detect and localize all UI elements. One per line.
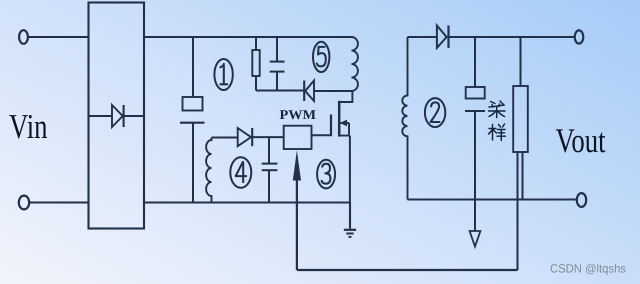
wire to ground bbox=[349, 203, 351, 229]
resistor R2 top lead bbox=[520, 37, 522, 86]
transistor Q1 source arrow bbox=[341, 122, 350, 124]
capacitor C1 top lead bbox=[192, 37, 194, 97]
resistor R1 body bbox=[252, 50, 259, 76]
bridge rectifier BR1 body bbox=[89, 3, 145, 229]
resistor R1 bottom lead bbox=[255, 76, 257, 91]
capacitor C1 box plate bbox=[183, 97, 203, 111]
wire top rail bbox=[144, 36, 352, 38]
wire D1 to drain node bbox=[314, 90, 352, 92]
node label 2 (circled) bbox=[425, 98, 445, 127]
wire secondary bottom rail bbox=[408, 199, 577, 201]
capacitor C2 bottom lead bbox=[474, 112, 476, 231]
diode D1 cathode bar bbox=[303, 81, 305, 102]
capacitor C4 bottom lead bbox=[268, 171, 270, 203]
transistor Q1 channel bar bbox=[338, 101, 341, 137]
transistor Q1 source stub bbox=[339, 123, 349, 136]
terminal input top bbox=[19, 30, 28, 44]
node label 1 (circled) bbox=[214, 59, 232, 90]
ground symbol bbox=[344, 229, 356, 231]
wire L4 to D4 bbox=[212, 137, 238, 139]
wire snubber bottom bbox=[256, 90, 303, 92]
terminal output bottom bbox=[577, 193, 586, 207]
svg-text:CSDN @ltqshs: CSDN @ltqshs bbox=[550, 262, 626, 276]
wire input bottom bbox=[29, 202, 88, 204]
terminal output top bbox=[575, 30, 584, 43]
transformer primary winding T1-5 bbox=[352, 37, 358, 91]
svg-text:PWM: PWM bbox=[280, 107, 317, 122]
diode D2 cathode bar bbox=[447, 26, 449, 48]
node label 3 (circled) bbox=[317, 160, 335, 189]
wire feedback bottom bbox=[297, 269, 518, 271]
capacitor C1 bottom plate bbox=[180, 122, 205, 124]
diode D4 triangle bbox=[238, 128, 251, 146]
transistor Q1 drain connection bbox=[340, 91, 353, 102]
wire secondary top left bbox=[408, 36, 437, 38]
wire feedback right vertical bbox=[517, 152, 519, 270]
capacitor C4 plates bbox=[262, 163, 278, 165]
capacitor C2 bottom plate bbox=[465, 110, 485, 112]
bridge rectifier internal diode bbox=[90, 115, 113, 117]
resistor R2 sampling body bbox=[513, 86, 528, 152]
node label 4 (circled) bbox=[230, 157, 251, 188]
capacitor C3 top lead bbox=[276, 37, 278, 61]
transistor Q1 gate bar bbox=[330, 115, 332, 136]
arrow to return (open) bbox=[470, 231, 481, 247]
svg-text:Vin: Vin bbox=[9, 107, 48, 146]
pwm controller U1 box bbox=[284, 126, 312, 149]
resistor R1 top lead bbox=[255, 37, 257, 50]
svg-text:Vout: Vout bbox=[556, 122, 606, 160]
diode D2 triangle bbox=[437, 26, 447, 48]
capacitor C3 plates bbox=[270, 61, 285, 63]
feedback arrow into PWM bbox=[293, 150, 301, 180]
wire source to ground rail bbox=[349, 136, 351, 203]
diode D4 cathode bar bbox=[251, 128, 253, 146]
resistor R2 bottom lead bbox=[522, 152, 524, 200]
wire bottom rail bbox=[144, 202, 351, 204]
diode D1 triangle bbox=[305, 81, 314, 102]
capacitor C4 top lead bbox=[268, 137, 270, 163]
label caiyang (sampling) bbox=[489, 101, 506, 141]
capacitor C2 box plate bbox=[466, 87, 485, 99]
wire D4 to PWM bbox=[252, 136, 284, 138]
capacitor C1 bottom lead bbox=[192, 124, 194, 203]
inductor L4 aux winding bbox=[206, 138, 211, 203]
capacitor C3 bottom lead bbox=[276, 72, 278, 90]
node label 5 (circled) bbox=[313, 42, 329, 72]
wire PWM to gate bbox=[312, 134, 332, 136]
wire input top bbox=[28, 36, 89, 38]
wire secondary top right bbox=[449, 36, 575, 38]
capacitor C2 top lead bbox=[474, 37, 476, 87]
secondary rail and winding L2 bbox=[402, 37, 407, 200]
terminal input bottom bbox=[19, 196, 29, 210]
